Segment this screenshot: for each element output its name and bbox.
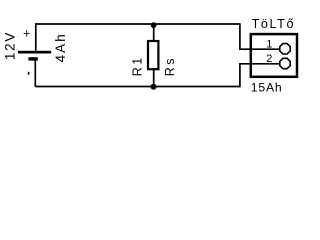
connector X1 box	[251, 34, 297, 77]
wire resistor top lead	[153, 24, 155, 41]
svg-text:12V: 12V	[3, 31, 18, 60]
node junction dot bottom	[151, 84, 157, 90]
wire pin 2 lead	[239, 63, 280, 65]
svg-text:15Ah: 15Ah	[251, 81, 283, 95]
svg-text:2: 2	[266, 53, 272, 65]
svg-text:1: 1	[266, 38, 272, 50]
resistor R1 body	[148, 41, 158, 69]
wire battery bottom lead	[34, 60, 36, 86]
node junction dot top	[151, 22, 157, 28]
wire pin 1 lead	[239, 48, 280, 50]
wire right bottom vertical to pin 2	[239, 64, 241, 88]
battery plate negative (short)	[28, 57, 38, 60]
pad pin 2 (octagon)	[280, 58, 290, 68]
battery polarity - (rotated dash)	[28, 72, 30, 75]
pad pin 1 (octagon)	[280, 44, 290, 54]
svg-text:TöLTő: TöLTő	[252, 17, 295, 31]
wire right top vertical to pin 1	[239, 23, 241, 49]
svg-text:R1: R1	[130, 55, 144, 76]
svg-text:+: +	[23, 27, 30, 41]
wire battery top lead	[35, 23, 37, 51]
wire bottom horizontal	[35, 86, 240, 88]
wire top horizontal	[36, 23, 240, 25]
svg-text:4Ah: 4Ah	[53, 32, 68, 62]
svg-text:Rs: Rs	[163, 56, 177, 76]
wire resistor bottom lead	[153, 69, 155, 87]
battery G1 plate positive (long)	[18, 51, 51, 54]
